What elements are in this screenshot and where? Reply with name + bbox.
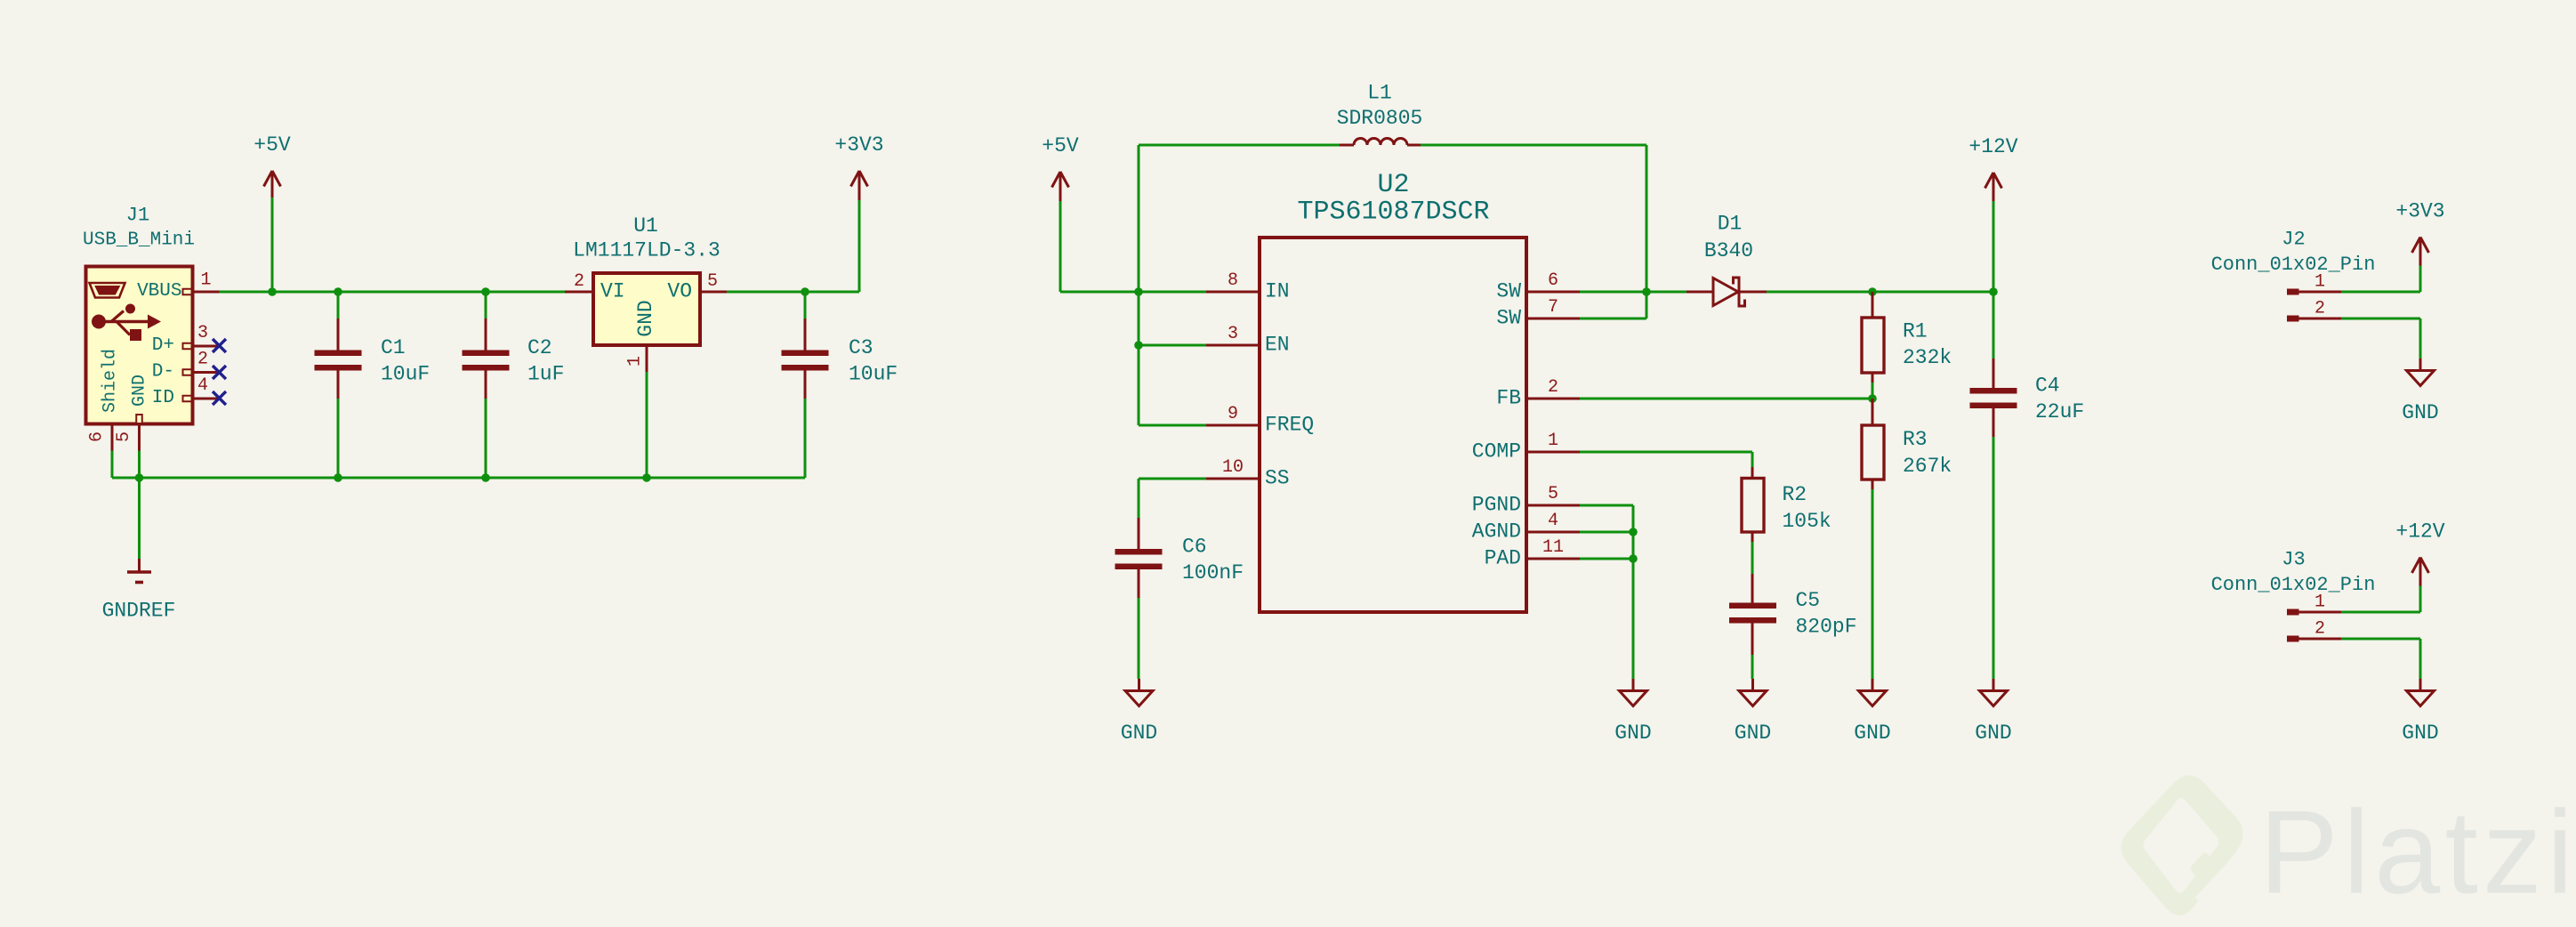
svg-text:5: 5: [707, 271, 718, 292]
svg-text:SS: SS: [1265, 467, 1290, 490]
power symbol +12V (J3): [2412, 558, 2429, 586]
wire FB to divider: [1580, 398, 1872, 400]
C2 pin bottom (maroon): [485, 370, 487, 399]
svg-text:1: 1: [2314, 272, 2325, 293]
svg-text:FREQ: FREQ: [1265, 414, 1314, 437]
ground symbol of J3: [2407, 679, 2435, 706]
U2 pin 1 COMP stub: [1526, 451, 1580, 454]
junction node SW: [1642, 287, 1651, 296]
svg-text:4: 4: [197, 375, 208, 396]
ground symbol under C6: [1125, 679, 1153, 706]
wire EN to U2: [1139, 344, 1206, 347]
wire C5 to GND: [1751, 655, 1754, 679]
C4 pin bottom (maroon): [1992, 408, 1995, 438]
wire C3 bottom lead: [804, 399, 807, 478]
U2 pin 7 SW stub: [1526, 318, 1580, 320]
junction node C2 top: [481, 287, 490, 296]
svg-text:D+: D+: [152, 335, 174, 356]
svg-text:PGND: PGND: [1472, 494, 1521, 517]
junction node C3 top: [801, 287, 809, 296]
wire C6 to GND: [1138, 598, 1140, 679]
R3 pin bottom (maroon): [1872, 480, 1874, 490]
wire top rail to L1: [1139, 144, 1340, 147]
wire PGND bus down: [1632, 505, 1635, 679]
svg-text:ID: ID: [152, 388, 174, 408]
ground symbol under R3: [1859, 679, 1887, 706]
J1 pin 4 ID stub: [183, 396, 220, 402]
svg-text:2: 2: [1548, 377, 1558, 398]
svg-text:SW: SW: [1496, 280, 1521, 303]
U2 pin 5 PGND stub: [1526, 504, 1580, 507]
wire L1 to SW riser: [1421, 144, 1646, 147]
regulator U1 body: [593, 273, 700, 345]
wire SW riser: [1646, 145, 1648, 318]
wire U1 pin1 to GND rail: [646, 372, 648, 478]
wire J1 pin5 drop: [138, 451, 141, 479]
svg-text:C4: C4: [2035, 375, 2060, 398]
svg-text:USB_B_Mini: USB_B_Mini: [83, 230, 195, 251]
svg-text:100nF: 100nF: [1182, 561, 1244, 584]
connector J1 body: [86, 267, 193, 424]
wire GNDREF drop: [138, 478, 141, 559]
U1 pin 1 stub: [646, 345, 648, 373]
C4 pin top (maroon): [1992, 359, 1995, 388]
capacitor C4: [1970, 388, 2017, 408]
wire SS to C6: [1139, 478, 1206, 480]
wire C1 top lead: [337, 292, 340, 319]
svg-text:C2: C2: [527, 336, 552, 359]
svg-text:U2: U2: [1377, 170, 1409, 200]
wire J2 pin1: [2341, 291, 2420, 294]
wire AGND to bus: [1580, 531, 1633, 534]
svg-text:C1: C1: [381, 336, 406, 359]
U2 pin 11 PAD stub: [1526, 558, 1580, 560]
wire J1 pin6 drop: [111, 451, 114, 479]
wire J3 pin2: [2341, 638, 2420, 641]
wire GND rail left section: [112, 477, 805, 480]
wire COMP down to R2: [1751, 452, 1754, 468]
svg-text:C3: C3: [849, 336, 873, 359]
svg-text:PAD: PAD: [1485, 547, 1521, 570]
svg-text:J2: J2: [2282, 229, 2305, 251]
svg-text:EN: EN: [1265, 334, 1290, 357]
U2 pin 10 SS stub: [1206, 478, 1260, 480]
svg-text:TPS61087DSCR: TPS61087DSCR: [1297, 197, 1489, 228]
svg-text:VI: VI: [600, 280, 625, 303]
power symbol +5V (middle): [1052, 172, 1069, 201]
wire SW pin6 to diode: [1580, 291, 1687, 294]
wire IN branch down to EN/FREQ: [1138, 292, 1140, 425]
C5 pin top (maroon): [1751, 574, 1754, 603]
svg-text:+3V3: +3V3: [2395, 200, 2444, 223]
svg-text:COMP: COMP: [1472, 440, 1521, 463]
U2 pin 9 FREQ stub: [1206, 424, 1260, 427]
no-connect X on J1 pin 4: [213, 391, 226, 405]
svg-text:GND: GND: [2402, 401, 2438, 424]
svg-text:GND: GND: [1854, 721, 1890, 745]
svg-text:GND: GND: [1975, 721, 2011, 745]
svg-text:C5: C5: [1796, 589, 1821, 612]
junction node +12V output: [1989, 287, 1998, 296]
svg-text:+5V: +5V: [254, 133, 291, 157]
no-connect X on J1 pin 3: [213, 339, 226, 352]
U2 pin 8 IN stub: [1206, 291, 1260, 294]
junction node C1 top: [334, 287, 342, 296]
wire FREQ to U2: [1139, 424, 1206, 427]
wire R1 to FB node: [1872, 383, 1874, 399]
wire J2 pin2 drop: [2419, 318, 2422, 359]
wire +5V to U2 IN: [1060, 291, 1206, 294]
wire J3 pin1: [2341, 611, 2420, 614]
U2 pin 6 SW stub: [1526, 291, 1580, 294]
wire VO rail to +3V3 riser: [805, 291, 859, 294]
svg-text:GND: GND: [2402, 721, 2438, 745]
R1 pin top (maroon): [1872, 292, 1874, 318]
wire +5V to VBUS rail: [271, 197, 274, 292]
R3 pin top (maroon): [1872, 399, 1874, 425]
svg-text:22uF: 22uF: [2035, 400, 2084, 423]
svg-text:C6: C6: [1182, 536, 1207, 559]
svg-text:1: 1: [1548, 431, 1558, 451]
wire C2 top lead: [485, 292, 487, 319]
U2 pin 2 FB stub: [1526, 398, 1580, 400]
wire C4 to GND: [1992, 437, 1995, 679]
svg-text:D-: D-: [152, 362, 174, 383]
connector J3 body: [2287, 609, 2341, 642]
junction node C1 bottom: [334, 473, 342, 482]
svg-text:5: 5: [114, 431, 134, 442]
power symbol +3V3 (J2): [2412, 238, 2429, 266]
no-connect X on J1 pin 2: [213, 366, 226, 379]
wire output to C4: [1992, 292, 1995, 359]
ground symbol under PGND: [1620, 679, 1647, 706]
svg-text:J3: J3: [2282, 549, 2305, 571]
svg-text:+12V: +12V: [1968, 135, 2017, 158]
wire D1 to output node: [1767, 291, 1993, 294]
junction node FB: [1868, 394, 1877, 403]
wire J2 pin1 riser: [2419, 266, 2422, 293]
svg-text:2: 2: [2314, 619, 2325, 640]
svg-text:Shield: Shield: [101, 349, 121, 413]
U1 pin 2 stub: [565, 291, 593, 294]
svg-text:232k: 232k: [1903, 346, 1952, 369]
svg-text:3: 3: [1228, 324, 1238, 344]
wire +5V middle drop: [1059, 201, 1062, 292]
J1 pin 6 Shield stub: [111, 424, 114, 451]
wire C2 bottom lead: [485, 399, 487, 478]
svg-text:B340: B340: [1704, 239, 1753, 262]
C5 pin bottom (maroon): [1751, 623, 1754, 656]
svg-text:FB: FB: [1496, 387, 1521, 410]
power symbol +12V (middle): [1985, 173, 2002, 201]
ground symbol under C5: [1739, 679, 1767, 706]
svg-text:10: 10: [1222, 457, 1244, 478]
svg-text:8: 8: [1228, 270, 1238, 291]
wire C6 riser: [1138, 479, 1140, 519]
svg-text:3: 3: [197, 323, 208, 343]
junction node U1 GND bottom: [642, 473, 651, 482]
svg-text:267k: 267k: [1903, 455, 1952, 478]
inductor L1: [1340, 139, 1421, 146]
power symbol +5V (left): [264, 171, 281, 200]
svg-text:1: 1: [200, 270, 211, 291]
svg-text:5: 5: [1548, 484, 1558, 504]
J1 pin 5 GND stub: [138, 424, 141, 451]
wire R2 to C5: [1751, 542, 1754, 575]
svg-text:IN: IN: [1265, 280, 1290, 303]
svg-text:VBUS: VBUS: [137, 281, 181, 302]
ground symbol GNDREF: [127, 559, 151, 583]
ground symbol of J2: [2407, 359, 2435, 386]
svg-text:10uF: 10uF: [849, 363, 898, 386]
ground symbol under C4: [1980, 679, 2008, 706]
wire +12V drop to output node: [1992, 201, 1995, 292]
svg-text:4: 4: [1548, 511, 1558, 531]
resistor R1: [1862, 318, 1884, 373]
capacitor C1: [315, 351, 362, 371]
power symbol +3V3 (left): [851, 171, 868, 200]
capacitor C3: [782, 351, 829, 371]
svg-text:Platzi: Platzi: [2259, 787, 2576, 919]
junction node R1 top: [1868, 287, 1877, 296]
J1 pin 2 D- stub: [183, 369, 220, 375]
svg-text:7: 7: [1548, 297, 1558, 318]
svg-text:SDR0805: SDR0805: [1337, 107, 1423, 130]
Platzi watermark diamond logo: [2121, 775, 2243, 915]
wire boost input riser: [1138, 145, 1140, 292]
J1 pin 3 D+ stub: [183, 343, 220, 350]
C2 pin top (maroon): [485, 318, 487, 351]
svg-text:6: 6: [1548, 270, 1558, 291]
J1 pin 1 VBUS stub: [183, 289, 220, 295]
svg-text:GND: GND: [1121, 721, 1157, 745]
svg-text:J1: J1: [126, 205, 149, 227]
C6 pin top (maroon): [1138, 518, 1140, 550]
svg-text:LM1117LD-3.3: LM1117LD-3.3: [573, 239, 720, 262]
svg-text:GND: GND: [634, 300, 657, 336]
diode D1 (Schottky B340): [1686, 278, 1767, 306]
svg-text:GND: GND: [1735, 721, 1771, 745]
wire C3 top lead: [804, 292, 807, 319]
svg-text:105k: 105k: [1783, 510, 1831, 533]
wire COMP right: [1580, 451, 1752, 454]
junction node GND rail at J1 pin5: [135, 473, 144, 482]
wire SW pin7 to riser: [1580, 318, 1646, 320]
resistor R3: [1862, 425, 1884, 480]
C3 pin bottom (maroon): [804, 370, 807, 399]
wire J3 pin1 riser: [2419, 586, 2422, 613]
J1 mini-USB receptacle icon: [90, 283, 125, 298]
junction node C2 bottom: [481, 473, 490, 482]
svg-text:R1: R1: [1903, 320, 1928, 343]
svg-text:SW: SW: [1496, 307, 1521, 330]
wire R3 to GND: [1872, 489, 1874, 679]
junction node +5V rail at x=306: [268, 287, 277, 296]
wire PGND to corner: [1580, 504, 1633, 507]
resistor R2: [1742, 479, 1764, 533]
R2 pin bottom (maroon): [1751, 532, 1754, 543]
capacitor C6: [1115, 549, 1163, 569]
C3 pin top (maroon): [804, 318, 807, 351]
wire J2 pin2: [2341, 318, 2420, 320]
capacitor C5: [1729, 603, 1776, 624]
svg-text:+12V: +12V: [2395, 520, 2444, 544]
svg-text:+3V3: +3V3: [834, 133, 883, 157]
wire U1 VO to C3: [727, 291, 805, 294]
svg-text:AGND: AGND: [1472, 520, 1521, 544]
J1 USB trident icon: [92, 304, 161, 342]
svg-text:D1: D1: [1718, 213, 1743, 236]
svg-text:Conn_01x02_Pin: Conn_01x02_Pin: [2211, 254, 2376, 276]
svg-text:11: 11: [1542, 537, 1564, 558]
U2 pin 3 EN stub: [1206, 344, 1260, 347]
svg-text:2: 2: [574, 271, 584, 292]
svg-text:VO: VO: [667, 280, 692, 303]
svg-text:1uF: 1uF: [527, 363, 564, 386]
svg-text:GND: GND: [1614, 721, 1651, 745]
U2 pin 4 AGND stub: [1526, 531, 1580, 534]
C6 pin bottom (maroon): [1138, 569, 1140, 599]
svg-text:9: 9: [1228, 404, 1238, 424]
svg-text:+5V: +5V: [1042, 134, 1079, 157]
wire +3V3 riser: [858, 199, 861, 292]
svg-text:2: 2: [2314, 299, 2325, 319]
svg-text:GND: GND: [130, 375, 150, 407]
svg-text:U1: U1: [633, 214, 658, 238]
junction node PAD: [1629, 554, 1638, 563]
svg-text:2: 2: [197, 350, 208, 370]
svg-text:1: 1: [2314, 592, 2325, 613]
svg-text:L1: L1: [1367, 82, 1392, 105]
svg-text:6: 6: [87, 431, 108, 442]
C1 pin bottom (maroon): [337, 370, 340, 399]
wire C1 bottom lead: [337, 399, 340, 478]
IC U2 body: [1260, 238, 1526, 612]
svg-text:1: 1: [625, 356, 646, 367]
capacitor C2: [463, 351, 510, 371]
R1 pin bottom (maroon): [1872, 373, 1874, 383]
connector J2 body: [2287, 289, 2341, 322]
svg-text:Conn_01x02_Pin: Conn_01x02_Pin: [2211, 574, 2376, 596]
U1 pin 5 stub: [700, 291, 727, 294]
svg-text:10uF: 10uF: [381, 363, 430, 386]
R2 pin top (maroon): [1751, 467, 1754, 479]
svg-text:GNDREF: GNDREF: [102, 600, 176, 623]
junction node IN branch: [1134, 287, 1143, 296]
wire J3 pin2 drop: [2419, 639, 2422, 680]
wire PAD to bus: [1580, 558, 1633, 560]
C1 pin top (maroon): [337, 318, 340, 351]
svg-text:820pF: 820pF: [1796, 616, 1857, 639]
svg-text:R3: R3: [1903, 428, 1928, 451]
svg-text:R2: R2: [1783, 483, 1807, 506]
junction node EN branch: [1134, 341, 1143, 350]
wire VBUS rail J1 to U1: [220, 291, 566, 294]
junction node AGND: [1629, 528, 1638, 536]
